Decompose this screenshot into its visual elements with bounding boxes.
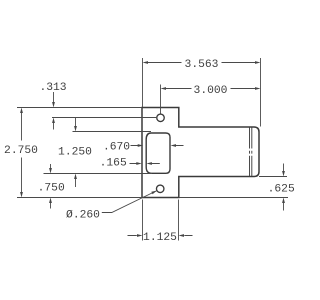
extension line tube right end bbox=[260, 58, 262, 127]
arrowhead 1.250 lower bbox=[74, 174, 77, 180]
extension line plate left edge (bottom) bbox=[142, 200, 144, 241]
extension line cutout top bbox=[73, 131, 152, 133]
arrowhead 3.000 right bbox=[255, 87, 261, 90]
extension line top hole centerline bbox=[52, 117, 156, 119]
svg-text:.670: .670 bbox=[103, 141, 130, 153]
arrowhead .625 top bbox=[282, 171, 285, 177]
extension line plate top edge bbox=[17, 107, 142, 109]
dimension line 2.750 bbox=[21, 113, 23, 193]
bottom screw hole bbox=[156, 185, 164, 193]
top screw hole bbox=[157, 114, 165, 122]
dimension line 3.563 bbox=[148, 62, 256, 64]
arrowhead .750 upper bbox=[49, 168, 52, 174]
dimension line 3.000 bbox=[166, 88, 256, 90]
arrowhead 1.125 left bbox=[137, 234, 143, 237]
arrowhead 3.563 right bbox=[255, 61, 261, 64]
arrowhead .625 bottom bbox=[282, 198, 285, 204]
dimension .313 arrow tails bbox=[53, 92, 55, 130]
arrowhead .165 right bbox=[146, 162, 152, 165]
center bolt cutout bbox=[146, 133, 170, 173]
arrowhead .670 right bbox=[171, 144, 177, 147]
tube crimp line right bbox=[251, 128, 253, 177]
arrowhead 1.250 upper bbox=[74, 126, 77, 132]
arrowhead 2.750 top bbox=[20, 108, 23, 114]
dimension .625 arrow tails bbox=[283, 164, 285, 211]
svg-text:3.563: 3.563 bbox=[185, 59, 219, 71]
dimension .670 leader and tail bbox=[131, 145, 184, 147]
svg-text:.313: .313 bbox=[39, 82, 66, 94]
svg-text:3.000: 3.000 bbox=[194, 85, 228, 97]
arrowhead 3.000 left bbox=[161, 87, 167, 90]
dimension .750 arrow tails bbox=[50, 164, 52, 209]
arrowhead 2.750 bottom bbox=[20, 192, 23, 198]
leader line for hole diameter .260 bbox=[102, 191, 157, 213]
tube crimp line left bbox=[249, 128, 251, 177]
dimension 1.250 arrow tails bbox=[75, 118, 77, 187]
svg-text:.625: .625 bbox=[268, 184, 295, 196]
dimension 1.125 arrow tails bbox=[128, 235, 193, 237]
dimension .165 leader and tail bbox=[130, 163, 160, 165]
extension line plate right edge (bottom) bbox=[178, 200, 180, 241]
arrowhead .750 lower bbox=[49, 198, 52, 204]
arrowhead .165 left bbox=[136, 162, 142, 165]
svg-text:.165: .165 bbox=[100, 157, 127, 169]
extension line plate bottom edge (right) bbox=[179, 197, 288, 199]
arrowhead .313 lower bbox=[52, 118, 55, 124]
part outline: latch faceplate with tube body bbox=[142, 108, 259, 198]
extension line tube bottom edge bbox=[259, 176, 287, 178]
svg-text:1.250: 1.250 bbox=[58, 147, 92, 159]
extension line plate bottom edge (left) bbox=[17, 197, 142, 199]
svg-text:Ø.260: Ø.260 bbox=[66, 209, 100, 221]
arrowhead .313 upper bbox=[52, 102, 55, 108]
arrowhead leader .260 bbox=[151, 191, 157, 195]
extension line plate left edge (top) bbox=[142, 58, 144, 107]
arrowhead 3.563 left bbox=[143, 61, 149, 64]
svg-text:1.125: 1.125 bbox=[143, 232, 177, 244]
svg-text:2.750: 2.750 bbox=[4, 145, 38, 157]
arrowhead 1.125 right bbox=[179, 234, 185, 237]
extension line cutout bottom bbox=[44, 173, 153, 175]
extension line top hole center bbox=[160, 85, 162, 114]
svg-text:.750: .750 bbox=[38, 182, 65, 194]
arrowhead .670 left bbox=[138, 144, 144, 147]
